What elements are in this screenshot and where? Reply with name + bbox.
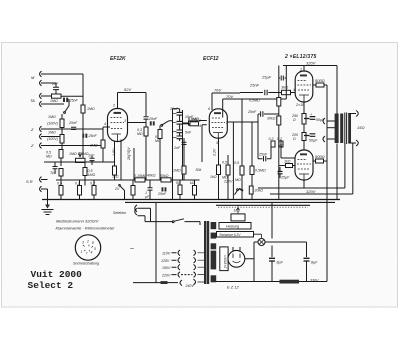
svg-text:Heizung: Heizung — [226, 225, 239, 229]
svg-text:1kΩ: 1kΩ — [210, 175, 217, 179]
svg-text:1: 1 — [81, 250, 83, 254]
svg-text:Vuit 2000: Vuit 2000 — [31, 269, 83, 280]
svg-text:1nF: 1nF — [88, 154, 95, 158]
svg-text:25µF: 25µF — [280, 176, 290, 180]
svg-text:25nF: 25nF — [69, 99, 79, 103]
svg-text:6: 6 — [208, 107, 210, 111]
svg-text:52V: 52V — [124, 87, 131, 92]
svg-text:40kΩ: 40kΩ — [147, 174, 156, 178]
svg-text:+: + — [310, 113, 312, 117]
svg-text:Sockelschaltung: Sockelschaltung — [73, 262, 99, 266]
svg-text:25nF: 25nF — [88, 134, 98, 138]
svg-text:1MΩ: 1MΩ — [48, 131, 56, 135]
svg-text:1MΩ: 1MΩ — [88, 173, 96, 177]
svg-text:Ω: Ω — [293, 137, 296, 141]
svg-text:1,6V: 1,6V — [112, 148, 116, 156]
svg-text:ECF12: ECF12 — [203, 56, 219, 62]
svg-text:4: 4 — [104, 122, 106, 126]
svg-text:Tonlampe 6,3V: Tonlampe 6,3V — [219, 233, 241, 237]
svg-text:Selektor: Selektor — [113, 211, 127, 215]
svg-text:(100V): (100V) — [47, 137, 58, 141]
svg-text:220V: 220V — [161, 274, 171, 278]
svg-text:Select 2: Select 2 — [28, 280, 74, 291]
svg-text:76V: 76V — [214, 88, 221, 93]
svg-text:0,5: 0,5 — [222, 161, 227, 165]
svg-text:25nF: 25nF — [157, 192, 167, 196]
svg-text:50: 50 — [176, 181, 180, 185]
svg-text:8µF: 8µF — [311, 261, 318, 265]
svg-text:3: 3 — [124, 119, 126, 123]
svg-text:Meßinstrumenn 320Ω/V: Meßinstrumenn 320Ω/V — [56, 219, 99, 224]
svg-text:4: 4 — [293, 88, 295, 92]
svg-text:MΩ: MΩ — [137, 132, 143, 136]
svg-text:Klammerwerte - Röhrenvoltmeter: Klammerwerte - Röhrenvoltmeter — [56, 226, 116, 231]
svg-text:70V: 70V — [226, 94, 233, 99]
svg-text:15Ω: 15Ω — [357, 125, 365, 130]
svg-text:~: ~ — [130, 246, 134, 253]
svg-text:50kΩ: 50kΩ — [160, 174, 169, 178]
svg-text:4: 4 — [91, 251, 93, 255]
svg-text:Ω: Ω — [293, 118, 296, 122]
svg-text:0,15MΩ: 0,15MΩ — [134, 174, 147, 178]
svg-text:25nF: 25nF — [247, 110, 257, 114]
svg-text:50k: 50k — [196, 168, 202, 172]
svg-text:150V: 150V — [162, 266, 171, 270]
svg-text:320V: 320V — [306, 61, 316, 66]
svg-text:26(76)V: 26(76)V — [127, 147, 131, 161]
svg-text:30kΩ: 30kΩ — [267, 117, 276, 121]
svg-text:1MΩ 0,5MΩ: 1MΩ 0,5MΩ — [69, 152, 89, 156]
svg-text:0,2: 0,2 — [269, 137, 274, 141]
svg-text:2 ×EL12/375: 2 ×EL12/375 — [284, 54, 317, 60]
svg-text:1kΩ: 1kΩ — [284, 160, 291, 164]
svg-text:25nF: 25nF — [258, 153, 268, 157]
svg-text:0,5MΩ: 0,5MΩ — [188, 118, 199, 122]
svg-text:5: 5 — [94, 247, 96, 251]
svg-text:2×18: 2×18 — [295, 103, 304, 107]
svg-text:25nF: 25nF — [249, 83, 260, 88]
svg-text:2×350V=: 2×350V= — [223, 255, 227, 270]
svg-text:5nF: 5nF — [185, 131, 192, 135]
svg-text:MΩ: MΩ — [235, 178, 241, 182]
svg-text:0,5MΩ: 0,5MΩ — [255, 169, 266, 173]
svg-text:25nF: 25nF — [68, 121, 78, 125]
svg-text:8: 8 — [92, 241, 94, 245]
svg-text:Z: Z — [30, 143, 34, 148]
svg-text:125V: 125V — [161, 259, 170, 263]
svg-text:500Ω: 500Ω — [315, 78, 325, 83]
svg-text:240V: 240V — [185, 284, 195, 288]
svg-text:3: 3 — [216, 141, 218, 145]
svg-text:0,2: 0,2 — [90, 182, 95, 186]
svg-text:2nF: 2nF — [51, 82, 59, 86]
svg-text:2nF: 2nF — [173, 146, 181, 150]
svg-text:500Ω: 500Ω — [315, 154, 325, 159]
svg-text:Z: Z — [30, 127, 34, 132]
svg-text:1MΩ: 1MΩ — [87, 107, 95, 111]
svg-text:4: 4 — [199, 124, 201, 128]
svg-text:EF12K: EF12K — [110, 56, 126, 62]
svg-text:7: 7 — [86, 252, 88, 256]
svg-text:S.R: S.R — [26, 179, 33, 184]
svg-text:2: 2 — [86, 240, 89, 244]
svg-text:(100V): (100V) — [47, 122, 58, 126]
svg-text:1µF: 1µF — [50, 171, 57, 175]
svg-text:50µF: 50µF — [309, 139, 318, 143]
svg-text:25nF: 25nF — [148, 117, 158, 121]
svg-text:E Z 12: E Z 12 — [227, 285, 240, 290]
svg-text:2V: 2V — [114, 187, 120, 191]
svg-text:2: 2 — [112, 104, 115, 108]
svg-text:1MΩ: 1MΩ — [50, 99, 58, 103]
svg-text:kΩ: kΩ — [190, 181, 195, 185]
svg-text:20kΩ: 20kΩ — [254, 189, 264, 193]
svg-text:20nF: 20nF — [169, 107, 179, 111]
svg-text:1MΩ: 1MΩ — [90, 144, 98, 148]
svg-text:1kΩ: 1kΩ — [234, 209, 241, 213]
svg-text:0,2: 0,2 — [75, 182, 80, 186]
svg-text:0,5: 0,5 — [234, 161, 239, 165]
svg-text:8µF: 8µF — [277, 261, 284, 265]
svg-text:220V: 220V — [223, 180, 233, 184]
svg-text:320V: 320V — [306, 189, 316, 194]
svg-text:3kΩ: 3kΩ — [281, 85, 288, 90]
svg-text:2,2V: 2,2V — [213, 148, 217, 157]
svg-text:1MΩ: 1MΩ — [173, 169, 181, 173]
svg-text:1MΩ: 1MΩ — [48, 115, 56, 119]
svg-text:TA: TA — [30, 98, 35, 103]
svg-text:110V: 110V — [162, 252, 171, 256]
svg-text:3: 3 — [82, 241, 84, 245]
svg-text:MΩ: MΩ — [46, 155, 52, 159]
svg-text:2: 2 — [299, 68, 302, 72]
svg-text:330V: 330V — [310, 279, 319, 283]
svg-text:0,5MΩ: 0,5MΩ — [249, 99, 260, 103]
svg-text:25µF: 25µF — [261, 75, 272, 80]
svg-text:0,5: 0,5 — [57, 182, 62, 186]
